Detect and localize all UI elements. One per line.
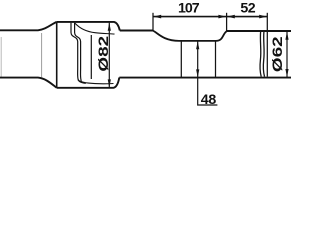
collar top edge (57, 22, 120, 31)
groove wall left (180, 41, 182, 77)
wire (0, 13, 291, 105)
collar left face (56, 22, 58, 88)
dimension line 48 vertical with leader (198, 41, 218, 105)
collar inner bottom line (78, 80, 114, 84)
svg-text:52: 52 (240, 1, 255, 17)
arrow 48 up (196, 41, 199, 49)
arrow dia62 down (285, 69, 288, 77)
break line 2 (263, 32, 264, 77)
collar inner top line (75, 23, 115, 34)
dimension extension line shared 107/52 (226, 13, 228, 32)
dimension line 107 and 52 (153, 16, 267, 18)
arrow dia82 up (108, 23, 111, 31)
dimension line diameter 82 (108, 23, 110, 88)
svg-text:Ø62: Ø62 (269, 36, 285, 72)
arrow 107 right (218, 15, 226, 19)
right shaft top edge (227, 30, 291, 32)
collar inner S-line A (71, 23, 86, 83)
svg-text:107: 107 (178, 0, 200, 16)
groove wall right (215, 41, 217, 77)
shank top edge (0, 22, 57, 30)
arrow 52 right (259, 15, 267, 19)
dimension line diameter 62 (286, 32, 288, 77)
break line 1 (260, 32, 261, 77)
shank bottom edge (0, 78, 57, 88)
dimension extension line 52 right / break line 3 (266, 13, 268, 77)
fillet tangent faint line (41, 33, 43, 77)
collar inner S-line B (75, 23, 82, 82)
left end face break line (0, 37, 2, 77)
shaft top edge to groove (120, 30, 153, 32)
arrow 48 down (196, 69, 199, 77)
svg-text:48: 48 (201, 92, 217, 108)
collar bottom edge (57, 78, 120, 88)
svg-text:Ø82: Ø82 (95, 36, 111, 72)
groove profile (153, 31, 227, 41)
arrow 52 left (227, 15, 235, 19)
collar inner vertical line (90, 35, 92, 79)
arrow dia82 down (108, 79, 111, 87)
arrow 107 left (153, 15, 161, 19)
shaft bottom edge (119, 77, 291, 79)
arrow dia62 up (285, 32, 288, 40)
dimension extension line 107 left (152, 13, 154, 31)
